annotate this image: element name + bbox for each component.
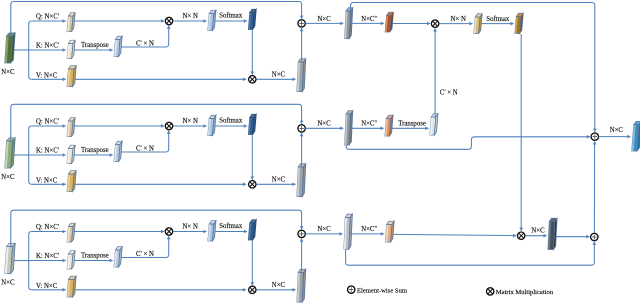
svg-text:K: N×C': K: N×C' [36, 43, 59, 50]
wire stage2 F1 to Q'' [350, 22, 384, 24]
svg-text:N× N: N× N [183, 224, 198, 231]
svg-text:Softmax: Softmax [219, 117, 243, 124]
wire final sum to output [599, 136, 631, 138]
svg-text:Transpose: Transpose [81, 252, 109, 259]
wire block1 softmax down to matmul2 [251, 31, 253, 75]
stage2 value matrix (N×C'') [385, 221, 394, 242]
key matrix K1 (N×C') [67, 40, 75, 58]
svg-text:Q: N×C': Q: N×C' [36, 224, 59, 231]
wire block3 K to transpose [74, 260, 112, 262]
wire block3 K branch [29, 260, 66, 262]
wire block1 K to transpose [74, 49, 112, 51]
svg-text:N×C'': N×C'' [361, 16, 377, 23]
fused feature F3 (N×C) [344, 214, 353, 249]
final output feature map (N×C) [632, 121, 640, 151]
wire block2 K to transpose [74, 154, 112, 156]
svg-text:N×C: N×C [272, 71, 286, 78]
query matrix Q2 (N×C') [67, 118, 75, 137]
svg-text:Transpose: Transpose [81, 42, 109, 49]
wire block3 input to QKV splitter [14, 260, 29, 262]
svg-text:V: N×C: V: N×C [36, 178, 58, 185]
wire block3 V branch [32, 289, 66, 291]
svg-text:Transpose: Transpose [398, 121, 426, 128]
key matrix K2 (N×C') [67, 145, 75, 163]
wire block2 input to QKV splitter [14, 154, 29, 156]
wire stage2 matmul to attention map [439, 23, 472, 25]
fused feature F1 (N×C) [345, 8, 353, 39]
wire stage2 attention map to softmax [481, 23, 513, 25]
matrix multiply symbol block3 AV [249, 286, 256, 293]
svg-text:N×C: N×C [610, 127, 624, 134]
svg-text:Element-wise Sum: Element-wise Sum [357, 287, 408, 294]
wire block1 V branch [32, 78, 66, 80]
wire block2 V to matmul2 [75, 183, 246, 185]
attended feature block3 (N×C) [297, 269, 306, 302]
wire stage2 V'' to matmul2 [393, 234, 516, 235]
svg-text:Softmax: Softmax [219, 12, 243, 19]
attended feature block1 (N×C) [297, 59, 306, 92]
softmax output block3 [248, 220, 256, 240]
wire block2 V branch [32, 183, 66, 185]
svg-text:Softmax: Softmax [219, 223, 243, 230]
matrix multiply symbol block1 AV [249, 76, 256, 83]
wire stage2 residual mid (F2 to final sum) [346, 137, 590, 150]
transposed key K2T (C'×N) [114, 141, 122, 161]
transposed key K3T (C'×N) [114, 247, 122, 267]
svg-text:N×C'': N×C'' [361, 226, 377, 233]
wire stage2 bottom from sum3 [306, 233, 343, 235]
svg-text:Matrix Multiplication: Matrix Multiplication [496, 289, 554, 296]
wire block1 matmul to attention map [173, 20, 206, 22]
wire block2 attention map to softmax [215, 125, 247, 127]
input feature map X2 (N×C) [5, 138, 16, 168]
svg-text:N× N: N× N [183, 118, 198, 125]
wire block3 Q branch [32, 231, 66, 233]
wire block1 input to QKV splitter [14, 49, 29, 51]
legend matrix multiplication symbol [487, 288, 494, 295]
wire block3 QKV splitter vertical [29, 232, 32, 290]
svg-text:N×C: N×C [1, 69, 15, 76]
wire block1 V to matmul2 [75, 78, 246, 80]
matrix multiply symbol block1 QK [165, 17, 172, 24]
wire block3 transposed K up to matmul [121, 236, 168, 257]
wire stage2 residual bottom (F3 to sum4) [346, 242, 595, 265]
svg-text:K: N×C': K: N×C' [36, 253, 59, 260]
wire stage2 matmul2 to output [525, 235, 546, 237]
matrix multiply symbol block3 QK [165, 228, 172, 235]
wire block3 residual skip (input to sum) [11, 210, 302, 246]
wire block1 attention map to softmax [215, 20, 247, 22]
wire block1 transposed K up to matmul [121, 26, 168, 47]
wire block2 residual skip (input to sum) [11, 104, 302, 141]
wire block2 output up to sum [301, 133, 303, 166]
wire block2 Q branch [32, 125, 66, 127]
query matrix Q1 (N×C') [67, 13, 75, 32]
wire block2 softmax down to matmul2 [251, 136, 253, 180]
wire block1 Q to matmul [74, 20, 164, 22]
wire block1 output up to sum [301, 28, 303, 61]
wire block2 QKV splitter vertical [29, 126, 32, 184]
svg-text:Q: N×C': Q: N×C' [36, 119, 59, 126]
svg-text:N×C'': N×C'' [361, 121, 377, 128]
wire block3 matmul2 to output [256, 289, 295, 291]
wire block1 K branch [29, 49, 66, 51]
element-wise sum symbol stage2 bottom [591, 233, 598, 240]
svg-text:N×C: N×C [272, 282, 286, 289]
wire block3 attention map to softmax [215, 231, 247, 233]
wire stage2 K'' to transpose [392, 127, 428, 129]
softmax output block1 [248, 9, 256, 29]
wire block1 residual skip (input to sum) [11, 2, 302, 37]
svg-text:N×C: N×C [318, 226, 332, 233]
svg-text:N×C: N×C [1, 174, 15, 181]
svg-text:N× N: N× N [451, 16, 466, 23]
svg-text:N×C: N×C [318, 121, 332, 128]
legend element-wise sum symbol [348, 286, 355, 293]
matrix multiply symbol stage2 AV [518, 232, 525, 239]
value matrix V3 (N×C) [67, 276, 76, 297]
wire block1 QKV splitter vertical [29, 21, 32, 79]
element-wise sum symbol block1 [298, 20, 305, 27]
wire block1 matmul2 to output [256, 78, 295, 80]
value matrix V1 (N×C) [67, 66, 76, 87]
wire stage2 transposed up to matmul [434, 29, 436, 117]
wire stage2 F3 to V'' [350, 233, 384, 235]
transposed key K1T (C'×N) [114, 36, 122, 56]
wire block2 transposed K up to matmul [121, 131, 168, 152]
element-wise sum symbol block2 [298, 125, 305, 132]
query matrix Q3 (N×C') [67, 223, 75, 242]
stage2 key matrix (N×C'') [385, 115, 393, 136]
svg-text:C' × N: C' × N [136, 251, 154, 258]
svg-text:N× N: N× N [183, 13, 198, 20]
wire block3 V to matmul2 [75, 289, 246, 291]
wire stage2 output to sum4 [556, 236, 590, 238]
softmax output block2 [248, 114, 256, 134]
wire block3 softmax down to matmul2 [251, 241, 253, 285]
attention map block2 (N×N) [208, 115, 216, 135]
stage2 attended feature (N×C) [548, 218, 557, 249]
wire stage2 softmax down to matmul2 [520, 34, 522, 231]
input feature map X1 (N×C) [5, 33, 16, 63]
svg-text:Transpose: Transpose [81, 147, 109, 154]
svg-text:K: N×C': K: N×C' [36, 148, 59, 155]
wire stage2 residual top (F1 to final sum) [351, 3, 595, 132]
svg-text:N×C: N×C [318, 16, 332, 23]
svg-text:N×C: N×C [1, 280, 15, 287]
stage2 attention map (N×N) [474, 14, 482, 34]
attended feature block2 (N×C) [297, 164, 306, 197]
wire block2 Q to matmul [74, 125, 164, 127]
value matrix V2 (N×C) [67, 171, 76, 192]
svg-text:V: N×C: V: N×C [36, 283, 58, 290]
svg-text:C' × N: C' × N [440, 89, 458, 96]
wire block2 matmul2 to output [256, 183, 295, 185]
wire stage2 top from sum1 [306, 22, 344, 24]
wire block2 K branch [29, 154, 66, 156]
svg-text:V: N×C: V: N×C [36, 73, 58, 80]
input feature map X3 (N×C) [5, 243, 16, 273]
wire block3 matmul to attention map [173, 231, 206, 233]
stage2 query matrix (N×C'') [385, 12, 393, 32]
matrix multiply symbol block2 AV [249, 181, 256, 188]
wire block2 matmul to attention map [173, 125, 206, 127]
element-wise sum symbol final [591, 133, 598, 140]
element-wise sum symbol block3 [298, 230, 305, 237]
wire block1 Q branch [32, 20, 66, 22]
svg-text:N×C: N×C [531, 227, 545, 234]
svg-text:C' × N: C' × N [136, 41, 154, 48]
wire block3 output up to sum [301, 239, 303, 272]
svg-text:C' × N: C' × N [136, 146, 154, 153]
wire stage2 Q'' to matmul [393, 23, 430, 25]
stage2 transposed key (C'×N) [430, 114, 438, 135]
wire stage2 F2 to K'' [350, 127, 384, 129]
wire stage2 mid from sum2 [306, 127, 344, 129]
stage2 softmax output [515, 13, 523, 33]
attention map block3 (N×N) [208, 221, 216, 241]
attention map block1 (N×N) [208, 10, 216, 30]
wire block3 Q to matmul [74, 231, 164, 233]
fused feature F2 (N×C) [345, 111, 353, 145]
key matrix K3 (N×C') [67, 251, 75, 269]
svg-text:N×C: N×C [272, 176, 286, 183]
matrix multiply symbol stage2 QK [431, 20, 438, 27]
svg-text:Softmax: Softmax [486, 16, 510, 23]
matrix multiply symbol block2 QK [165, 122, 172, 129]
svg-text:Q: N×C': Q: N×C' [36, 14, 59, 21]
wire sum4 up to final sum [593, 142, 595, 233]
